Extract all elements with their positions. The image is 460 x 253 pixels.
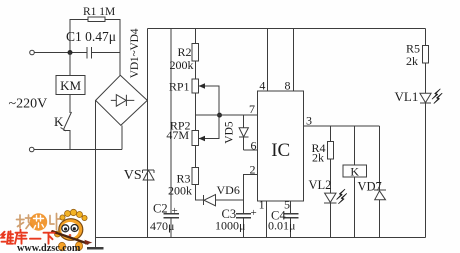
svg-text:KM: KM [60, 78, 81, 93]
svg-text:VD1~VD4: VD1~VD4 [129, 28, 141, 78]
watermark zhao glyph [17, 215, 34, 229]
resistor R4 [327, 126, 333, 193]
svg-text:8: 8 [285, 79, 291, 93]
LED VL1 [420, 89, 442, 237]
svg-text:R1 1M: R1 1M [83, 6, 115, 18]
svg-text:+: + [172, 205, 178, 217]
svg-text:K: K [350, 165, 359, 179]
wire top rail [147, 28, 425, 30]
bridge rectifier VD1~VD4 diamond [96, 75, 148, 125]
svg-text:~220V: ~220V [9, 97, 48, 112]
svg-text:VD7: VD7 [358, 179, 382, 193]
resistor R3 [192, 167, 203, 200]
ground [87, 237, 103, 248]
watermark xin circle [30, 213, 47, 230]
watermark pian glyph [50, 214, 61, 230]
terminal T2 [29, 147, 34, 152]
resistor R5 [422, 29, 428, 94]
svg-text:VD5: VD5 [224, 121, 236, 144]
svg-text:VL1: VL1 [395, 89, 419, 104]
wire pin1 [265, 201, 267, 237]
wire pin8 [292, 29, 294, 92]
diode VD7 [374, 126, 386, 237]
diode VD5 [239, 115, 248, 150]
relay coil K [343, 126, 366, 237]
svg-text:7: 7 [249, 102, 255, 116]
svg-text:IC: IC [271, 140, 290, 161]
capacitor C1 [87, 47, 92, 59]
svg-text:2k: 2k [406, 54, 418, 68]
svg-text:470μ: 470μ [150, 219, 174, 233]
svg-text:C1 0.47μ: C1 0.47μ [66, 29, 116, 44]
svg-text:1000μ: 1000μ [215, 218, 245, 232]
wire bridge bottom corner to AC [121, 125, 123, 149]
watermark [2, 209, 93, 253]
resistor R1 [70, 17, 120, 75]
IC U1 box [258, 91, 304, 201]
wire node A to KM [69, 53, 71, 76]
LED VL2 [324, 189, 347, 237]
svg-text:RP1: RP1 [169, 80, 190, 94]
capacitor C2 [164, 29, 180, 238]
watermark weikuyixia red text [2, 230, 55, 244]
capacitor C3 [236, 214, 251, 238]
potentiometer RP2 [192, 115, 219, 167]
svg-text:5: 5 [284, 198, 290, 212]
terminal T1 [30, 50, 35, 55]
svg-text:VD6: VD6 [217, 183, 240, 197]
node A junction dot [68, 50, 73, 55]
relay coil KM [56, 76, 85, 95]
wire AC bottom [34, 149, 122, 151]
svg-text:C2: C2 [153, 201, 168, 215]
wire bridge left corner to ground rail [95, 100, 97, 237]
svg-text:200k: 200k [168, 184, 192, 198]
svg-text:1: 1 [259, 198, 265, 212]
wire pin4 [266, 29, 268, 92]
svg-text:4: 4 [259, 79, 265, 93]
svg-text:+: + [251, 207, 257, 219]
svg-text:2: 2 [250, 162, 256, 176]
surge absorber VS [143, 170, 155, 180]
wire pin2 to C3 [244, 175, 258, 214]
wire pin7 [195, 114, 257, 116]
node wiper junction dot [217, 113, 222, 118]
svg-text:www.dzsc.com: www.dzsc.com [17, 243, 81, 253]
wire AC top [35, 52, 121, 54]
switch K [61, 94, 72, 149]
svg-text:VL2: VL2 [309, 178, 332, 192]
bridge inner diode [111, 95, 135, 107]
diode VD6 [203, 195, 243, 206]
resistor R2 [192, 29, 199, 80]
svg-text:6: 6 [251, 138, 257, 152]
wire pin6 [244, 149, 258, 151]
svg-text:2k: 2k [312, 150, 324, 164]
wire pin3 [304, 125, 380, 127]
potentiometer RP1 [192, 79, 219, 130]
wire ground rail [96, 236, 426, 238]
svg-text:47M: 47M [166, 128, 189, 142]
watermark mascot [53, 209, 93, 250]
svg-text:200k: 200k [170, 58, 194, 72]
wire pin5 / capacitor C4 [284, 201, 299, 237]
wire V+ rail vertical (bridge right corner) [146, 29, 148, 238]
svg-text:K: K [54, 114, 64, 129]
svg-text:3: 3 [306, 114, 312, 128]
svg-text:VS: VS [124, 168, 142, 183]
svg-text:0.01μ: 0.01μ [268, 219, 295, 233]
